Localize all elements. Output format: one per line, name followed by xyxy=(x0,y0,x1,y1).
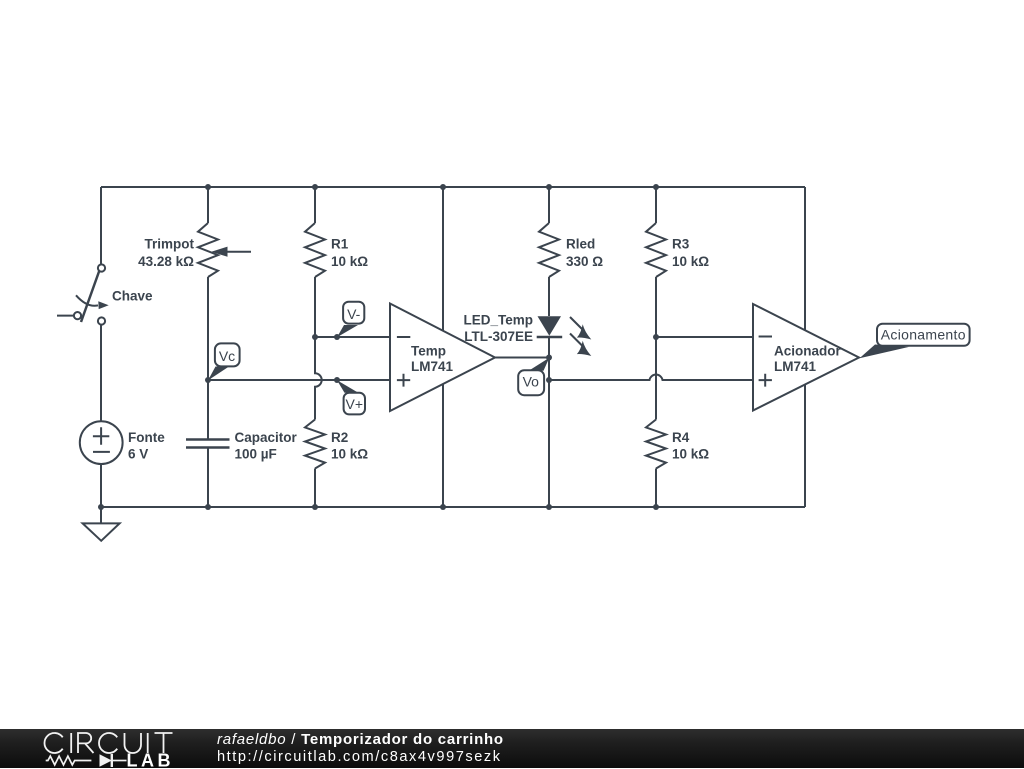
svg-text:V+: V+ xyxy=(346,396,364,412)
resistor R4 10k xyxy=(646,337,709,507)
svg-text:R1: R1 xyxy=(331,236,349,251)
op-amp U2 Acionador LM741 xyxy=(753,304,859,411)
node dots bottom rail xyxy=(98,504,659,510)
source V1 Fonte 6V xyxy=(80,421,165,464)
svg-text:330 Ω: 330 Ω xyxy=(566,254,603,269)
node dots top rail xyxy=(205,184,659,190)
wire LED node down xyxy=(548,358,550,381)
svg-text:6 V: 6 V xyxy=(128,447,148,462)
svg-text:Vc: Vc xyxy=(219,348,235,364)
svg-text:Acionador: Acionador xyxy=(774,344,842,359)
switch SW1 Chave xyxy=(57,264,153,324)
capacitor C1 100uF xyxy=(186,430,298,507)
svg-text:Temp: Temp xyxy=(411,344,446,359)
wire Vc row (node Vc to op-amp + input, hop over R1R2 column) xyxy=(208,379,390,381)
svg-text:Capacitor: Capacitor xyxy=(235,430,298,445)
node dots middle xyxy=(205,334,659,383)
svg-text:10 kΩ: 10 kΩ xyxy=(672,254,709,269)
svg-text:LTL-307EE: LTL-307EE xyxy=(464,329,533,344)
LED LED_Temp LTL-307EE xyxy=(463,312,591,357)
trimpot R_trim 43.28k xyxy=(138,187,251,277)
node flag V- xyxy=(337,302,364,338)
resistor R2 10k xyxy=(305,337,368,507)
wire bottom rail xyxy=(101,506,805,508)
svg-text:10 kΩ: 10 kΩ xyxy=(672,447,709,462)
resistor Rled 330 xyxy=(539,187,603,316)
CircuitLab logo xyxy=(0,729,200,769)
resistor R1 10k xyxy=(305,187,368,337)
wire left top xyxy=(100,187,102,265)
svg-text:43.28 kΩ: 43.28 kΩ xyxy=(138,254,194,269)
wire R3R4 node to op-amp2 - input xyxy=(656,336,753,338)
wire right rail xyxy=(804,187,806,507)
resistor R3 10k xyxy=(646,187,709,337)
svg-text:LM741: LM741 xyxy=(411,359,454,374)
svg-text:Vo: Vo xyxy=(523,373,540,389)
svg-text:Acionamento: Acionamento xyxy=(881,327,966,343)
node flag Vc xyxy=(208,343,240,380)
node flag Vo xyxy=(518,358,549,395)
wire switch to source xyxy=(100,325,102,422)
svg-text:R3: R3 xyxy=(672,236,690,251)
svg-text:LM741: LM741 xyxy=(774,359,817,374)
svg-text:LED_Temp: LED_Temp xyxy=(463,312,533,327)
wire trimpot to capacitor xyxy=(207,277,209,439)
wire column x443 top to bottom xyxy=(442,187,444,507)
wire Vo row to op-amp2 + input (hop over R3R4 column) xyxy=(549,375,753,380)
svg-text:Trimpot: Trimpot xyxy=(145,236,195,251)
footer bar xyxy=(0,729,1024,769)
svg-text:10 kΩ: 10 kΩ xyxy=(331,447,368,462)
wire source to bottom rail xyxy=(100,463,102,507)
output flag Acionamento xyxy=(860,324,970,359)
svg-text:LAB: LAB xyxy=(127,750,175,768)
svg-text:V-: V- xyxy=(347,306,361,322)
svg-text:R4: R4 xyxy=(672,430,690,445)
wire V- row (R1R2 node to op-amp - input) xyxy=(315,336,390,338)
wire x549 down to bottom rail xyxy=(548,380,550,507)
svg-text:Rled: Rled xyxy=(566,236,595,251)
svg-text:Fonte: Fonte xyxy=(128,430,165,445)
svg-text:R2: R2 xyxy=(331,430,348,445)
svg-text:Chave: Chave xyxy=(112,289,153,304)
ground xyxy=(83,507,120,541)
svg-text:100 µF: 100 µF xyxy=(235,447,277,462)
op-amp U1 Temp LM741 xyxy=(390,304,495,412)
wire top rail xyxy=(101,186,805,188)
svg-text:10 kΩ: 10 kΩ xyxy=(331,254,368,269)
node flag V+ xyxy=(337,380,365,414)
wire op-amp1 output xyxy=(495,357,549,359)
